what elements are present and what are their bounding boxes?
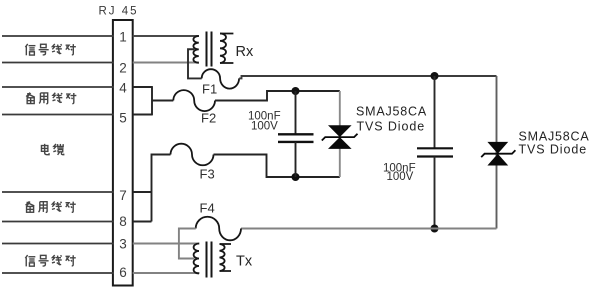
node tie of pins 4 and 5 [151,86,153,115]
node tie of pins 7 and 8 riser to F3 [152,155,171,222]
svg-text:TVS Diode: TVS Diode [357,120,426,134]
transformer T1 Rx core [207,32,212,67]
transformer T2 Tx secondary winding [220,244,232,271]
wire pin3 to transformer T2 [133,243,200,245]
wire pin1 to transformer T1 [133,35,199,37]
transformer T2 Tx core [207,242,212,278]
wire F2 to node N1 [215,91,340,101]
TVS diode D1 SMAJ58CA (bidirectional) [328,125,352,137]
svg-text:RJ 45: RJ 45 [99,6,139,18]
svg-text:1: 1 [119,30,127,45]
fuse F4 [196,217,241,241]
wire T1 center tap to fuse F1 [188,49,202,78]
capacitor C2 100nF lead top [434,76,436,148]
wire right rail through TVS D2 [496,76,498,229]
wire pin8 to tie [133,221,152,223]
node N2 junction dot [292,173,300,181]
wire cable pair line to pin 1 [2,35,114,37]
wire pin2 to transformer T1 [133,62,199,64]
wire pin6 to transformer T2 [133,272,200,274]
wire cable pair line to pin 6 [2,272,114,274]
svg-text:3: 3 [119,237,127,252]
transformer T1 Rx primary winding [193,36,198,63]
svg-text:SMAJ58CA: SMAJ58CA [356,105,427,119]
TVS diode D1 wire through [339,91,341,177]
node N4 junction dot on bottom rail [431,225,439,233]
svg-text:F2: F2 [201,111,216,126]
svg-text:F4: F4 [200,201,215,216]
wire cable pair line to pin 7 [2,191,114,193]
fuse F2 [173,90,215,111]
wire F4 to transformer T2 center tap [179,229,196,259]
TVS diode D2 SMAJ58CA (bidirectional) [487,142,508,154]
transformer T1 Rx secondary winding [220,34,233,64]
fuse F1 [202,69,239,88]
capacitor C1 lead bottom [295,142,297,177]
svg-text:5: 5 [119,111,127,126]
capacitor C2 100nF plates [417,148,453,156]
svg-text:Rx: Rx [236,44,254,60]
svg-text:100V: 100V [387,171,414,183]
label signal pair (bottom) [25,255,76,266]
svg-text:100V: 100V [251,121,278,133]
capacitor C1 100nF plates [278,134,314,142]
wire F1 to top bus rail [239,76,496,78]
svg-text:6: 6 [119,265,127,280]
label spare pair (upper) [26,93,76,104]
capacitor C1 100nF lead top [295,91,297,134]
label signal pair (top) [25,44,76,55]
wire pin7 to tie [133,191,152,193]
wire tie to fuse F2 [152,100,173,102]
svg-text:Tx: Tx [236,253,253,269]
wire pin4 to tie box [133,86,152,88]
svg-text:2: 2 [119,61,127,76]
transformer T2 Tx primary winding [194,244,199,274]
svg-text:4: 4 [119,81,127,96]
svg-text:TVS Diode: TVS Diode [519,143,588,157]
capacitor C2 lead bottom [434,157,436,229]
wire cable pair line to pin 3 [2,243,114,245]
node N1 junction dot [292,87,300,95]
wire pin5 to tie box [133,114,152,116]
label cable [41,144,63,155]
wire cable pair line to pin 4 [2,86,114,88]
fuse F3 [171,144,214,166]
node N3 junction dot on top rail [431,72,439,80]
svg-text:SMAJ58CA: SMAJ58CA [519,130,590,144]
label spare pair (lower) [26,201,76,212]
wire cable pair line to pin 8 [2,221,114,223]
wire cable pair line to pin 5 [2,114,114,116]
svg-text:F1: F1 [202,82,217,97]
wire bottom bus rail [241,228,497,230]
wire cable pair line to pin 2 [2,62,114,64]
connector J1 RJ45 body [113,20,133,286]
svg-text:8: 8 [119,214,127,229]
svg-text:F3: F3 [200,167,215,182]
wire F3 to node N2 [214,155,340,178]
svg-text:7: 7 [119,188,127,203]
